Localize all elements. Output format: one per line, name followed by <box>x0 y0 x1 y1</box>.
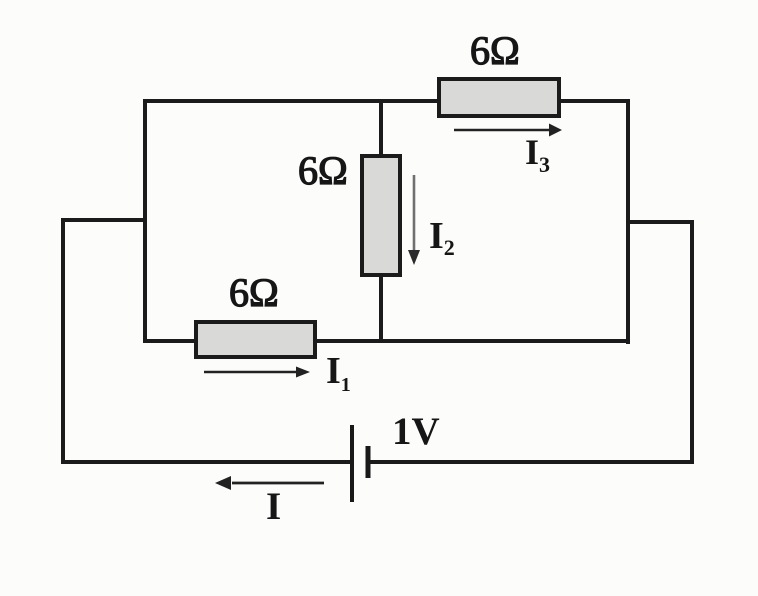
svg-text:I: I <box>266 485 281 528</box>
wire: inner-left vertical branch <box>143 99 147 343</box>
current arrow I (to the left, above bottom wire) <box>215 476 324 490</box>
resistor R1 body (bottom branch, 6 ohm) <box>196 322 315 357</box>
wire: bottom wire right of battery <box>368 460 694 464</box>
wire: outer-right vertical <box>690 220 694 464</box>
svg-text:6Ω: 6Ω <box>298 148 348 193</box>
svg-text:6Ω: 6Ω <box>229 270 279 315</box>
resistor R3 body (top branch, 6 ohm) <box>439 79 559 116</box>
resistor R2 body (middle branch, 6 ohm) <box>362 156 400 275</box>
wire: inner-right vertical branch <box>626 99 630 344</box>
wire: outer-left vertical <box>61 218 65 464</box>
wire: inner bottom side (through R1 and node C) <box>143 339 630 343</box>
battery B1 short plate <box>366 446 371 478</box>
svg-text:1V: 1V <box>392 410 440 453</box>
wire: bottom wire left of battery <box>61 460 352 464</box>
wire: left stub from outer loop to inner-left branch <box>61 218 147 222</box>
battery B1 long plate <box>350 425 354 502</box>
wire: top side of inner loop (node B to node D) <box>143 99 630 103</box>
current arrow I1 (to the right, under R1) <box>204 367 310 378</box>
current arrow I3 (to the right, under R3) <box>454 124 562 137</box>
svg-text:6Ω: 6Ω <box>470 28 520 73</box>
wire: middle branch vertical (node C top to bottom) <box>379 101 383 341</box>
current arrow I2 (downward, beside R2) <box>408 175 420 265</box>
wire: right stub from inner-right branch to outer loop <box>626 220 694 224</box>
